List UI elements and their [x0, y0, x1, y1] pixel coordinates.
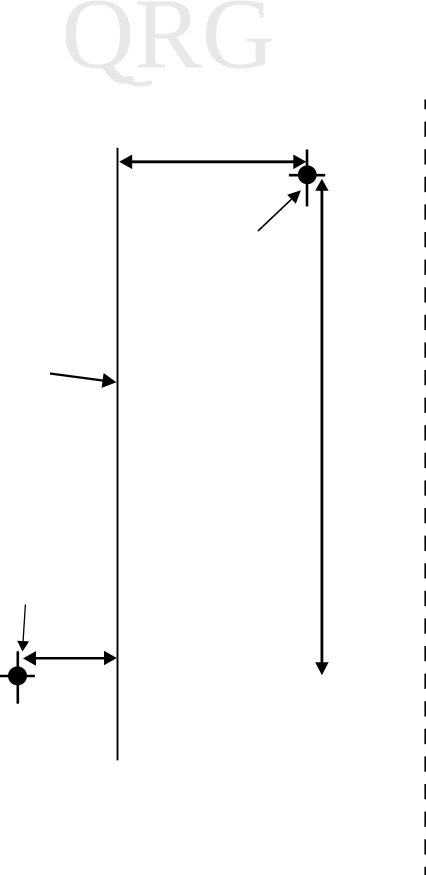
leader arrow to vertical reference line	[50, 373, 117, 388]
svg-text:QRG: QRG	[62, 0, 275, 90]
leader arrow to node B	[17, 604, 29, 651]
leader arrow to node A	[258, 190, 301, 231]
watermark Q swash tail extension	[123, 78, 150, 84]
node B marker (filled circle with cross)	[0, 651, 35, 703]
top horizontal dimension arrow	[119, 155, 306, 170]
vertical dimension arrow	[315, 179, 328, 675]
dashed page-edge line	[424, 100, 426, 875]
node A marker (filled circle with cross)	[289, 150, 325, 207]
vertical reference line	[117, 148, 119, 761]
bottom horizontal dimension arrow	[23, 651, 117, 666]
